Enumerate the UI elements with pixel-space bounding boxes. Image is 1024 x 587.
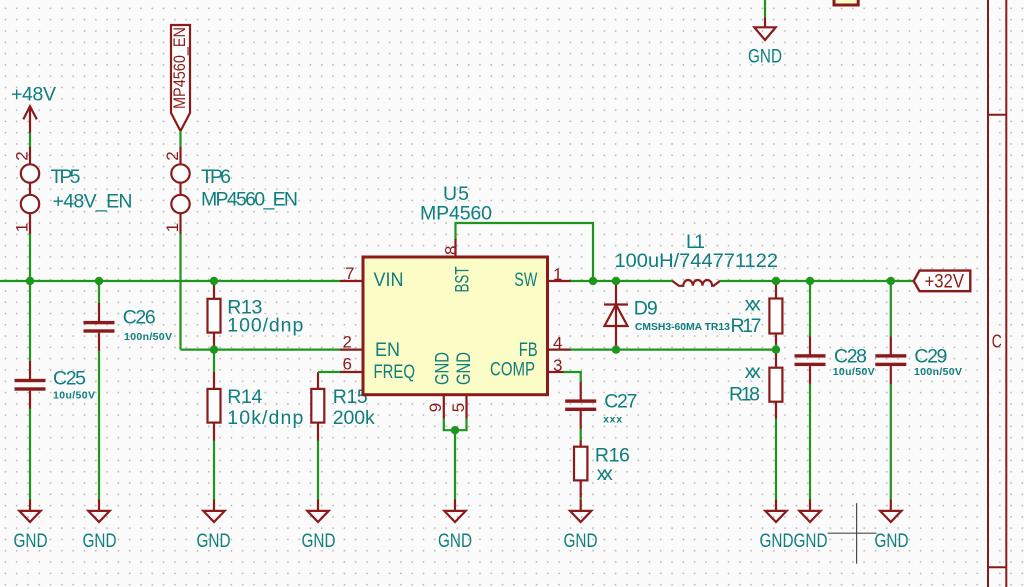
node BST drop: [589, 277, 597, 285]
svg-text:100n/50V: 100n/50V: [124, 331, 172, 343]
svg-text:GND: GND: [438, 530, 472, 552]
U5 pin 6 FREQ: [340, 355, 415, 383]
power symbol +48V: [11, 84, 56, 149]
svg-text:TP5: TP5: [51, 166, 81, 188]
node IC gnd join: [451, 426, 459, 434]
svg-text:7: 7: [345, 264, 354, 283]
node rail C26: [95, 277, 103, 285]
frame right border inner line: [987, 0, 989, 587]
resistor R15: [311, 373, 375, 441]
svg-text:C: C: [992, 332, 1002, 352]
svg-text:10k/dnp: 10k/dnp: [227, 407, 303, 429]
wire FB row: [570, 349, 776, 351]
svg-text:GND: GND: [760, 530, 794, 552]
svg-text:R18: R18: [729, 383, 760, 405]
svg-text:10u/50V: 10u/50V: [53, 390, 95, 402]
test point TP6: [163, 147, 298, 234]
hierarchical label MP4560_EN flag: [170, 25, 190, 148]
wire R13 top: [213, 281, 215, 286]
svg-text:GND: GND: [748, 46, 782, 68]
partial component top right: [834, 0, 858, 5]
U5 pin 9 GND: [426, 352, 454, 419]
U5 pin 7 VIN: [340, 264, 404, 291]
svg-text:1: 1: [553, 265, 562, 284]
resistor R13: [208, 283, 304, 350]
ground C28: [794, 500, 828, 552]
wire C28 top: [809, 281, 811, 337]
svg-text:GND: GND: [564, 530, 598, 552]
capacitor C26: [84, 303, 173, 351]
ground C26: [83, 500, 117, 552]
svg-text:xx: xx: [597, 463, 613, 485]
svg-text:MP4560_EN: MP4560_EN: [201, 189, 298, 211]
wire C28 bottom to gnd: [809, 383, 811, 500]
node EN junction: [210, 345, 218, 353]
frame row divider bottom: [988, 566, 1006, 568]
diode D9: [604, 281, 730, 350]
svg-text:9: 9: [426, 403, 445, 412]
U5 pin 3 COMP: [490, 356, 564, 381]
ground top GND: [748, 17, 782, 67]
U5 pin 5 GND: [449, 352, 475, 419]
svg-text:GND: GND: [83, 530, 117, 552]
svg-text:R17: R17: [731, 315, 762, 337]
ground U5: [438, 500, 472, 552]
svg-text:CMSH3-60MA TR13: CMSH3-60MA TR13: [635, 321, 730, 333]
svg-text:100/dnp: 100/dnp: [227, 314, 303, 336]
wire TP5 column vertical: [29, 234, 31, 362]
wire IC gnd to gnd symbol: [454, 430, 456, 500]
resistor R17: [731, 285, 783, 345]
resistor R14: [208, 372, 304, 441]
svg-text:10u/50V: 10u/50V: [833, 366, 875, 378]
svg-text:+48V_EN: +48V_EN: [53, 191, 133, 213]
wire C26 to gnd: [98, 350, 100, 500]
ground C25: [14, 500, 48, 552]
svg-text:2: 2: [13, 151, 32, 160]
wire C27 to R16: [580, 428, 582, 441]
svg-text:MP4560_EN: MP4560_EN: [170, 27, 189, 109]
node rail R17: [772, 277, 780, 285]
svg-text:C29: C29: [914, 345, 947, 367]
capacitor C27: [565, 382, 637, 429]
capacitor C29: [875, 337, 962, 384]
ground R16: [564, 500, 598, 552]
node rail C28: [806, 277, 814, 285]
op IC U5 MP4560 body: [363, 183, 548, 395]
svg-text:1: 1: [163, 223, 182, 232]
frame row divider top: [988, 114, 1006, 116]
svg-text:EN: EN: [375, 340, 400, 361]
svg-text:SW: SW: [514, 270, 537, 291]
svg-text:TP6: TP6: [201, 166, 231, 188]
cursor crosshair: [828, 503, 877, 563]
svg-text:D9: D9: [634, 298, 658, 320]
wire R14 top: [213, 350, 215, 373]
svg-text:GND: GND: [875, 530, 909, 552]
wire R17 bottom link: [775, 344, 777, 353]
inductor L1: [615, 231, 779, 286]
svg-text:100uH/744771122: 100uH/744771122: [615, 250, 779, 272]
U5 pin 4 FB: [519, 334, 571, 362]
svg-text:xxx: xxx: [603, 413, 622, 425]
svg-text:200k: 200k: [333, 407, 375, 429]
U5 pin 8 BST: [442, 239, 474, 293]
wire C25 to gnd: [29, 408, 31, 500]
U5 pin 1 SW: [514, 265, 570, 291]
test point TP5: [13, 147, 133, 234]
node FB R17 R18: [772, 345, 780, 353]
wire R18 bottom to gnd: [775, 418, 777, 500]
wire R15 bottom to gnd: [317, 440, 319, 500]
wire L1 to +32V flag: [720, 280, 914, 282]
svg-text:GND: GND: [14, 530, 48, 552]
node rail TP5: [26, 277, 34, 285]
svg-text:C28: C28: [834, 345, 867, 367]
svg-text:GND: GND: [302, 530, 336, 552]
svg-text:xx: xx: [745, 361, 761, 383]
wire FREQ row: [318, 371, 341, 373]
node SW D9: [612, 277, 620, 285]
node FB D9: [612, 345, 620, 353]
resistor R18: [729, 353, 782, 419]
svg-text:C26: C26: [123, 307, 156, 329]
svg-text:xx: xx: [745, 294, 761, 316]
svg-text:FREQ: FREQ: [374, 362, 416, 383]
svg-text:R14: R14: [227, 386, 262, 408]
svg-text:GND: GND: [197, 530, 231, 552]
svg-text:8: 8: [442, 246, 461, 255]
frame right border outer line: [1005, 0, 1007, 587]
wire C29 bottom to gnd: [890, 383, 892, 500]
wire C29 top: [890, 281, 892, 337]
svg-text:+32V: +32V: [925, 271, 965, 293]
ground C29: [875, 500, 909, 552]
resistor R16: [574, 441, 630, 498]
ground R14: [197, 500, 231, 552]
wire R14 bottom to gnd: [213, 440, 215, 500]
wire C26 column: [98, 281, 100, 304]
svg-text:BST: BST: [452, 266, 473, 292]
svg-text:100n/50V: 100n/50V: [914, 366, 962, 378]
svg-text:4: 4: [553, 334, 562, 353]
wire BST loop: [456, 223, 594, 281]
wire top gnd drop: [764, 0, 766, 17]
U5 pin 2 EN: [340, 333, 400, 362]
capacitor C28: [795, 337, 875, 384]
svg-text:C25: C25: [53, 368, 86, 390]
svg-text:GND: GND: [794, 530, 828, 552]
wire R16 to gnd: [580, 497, 582, 500]
ground R15: [302, 500, 336, 552]
svg-text:1: 1: [13, 223, 32, 232]
svg-text:GND: GND: [454, 352, 475, 385]
wire COMP turn: [563, 372, 581, 383]
wire SW to L1: [570, 280, 673, 282]
wire EN row: [181, 349, 341, 351]
wire main input rail: [0, 280, 340, 282]
svg-text:FB: FB: [519, 340, 538, 361]
svg-text:COMP: COMP: [490, 360, 535, 381]
svg-text:2: 2: [163, 151, 182, 160]
node rail R13: [210, 277, 218, 285]
svg-text:6: 6: [343, 355, 352, 374]
svg-text:5: 5: [449, 403, 468, 412]
svg-text:MP4560: MP4560: [420, 202, 492, 224]
capacitor C25: [15, 361, 96, 409]
node rail C29: [887, 277, 895, 285]
wire TP6 column vertical: [179, 234, 181, 350]
svg-text:VIN: VIN: [374, 270, 404, 291]
svg-text:C27: C27: [604, 390, 637, 412]
ground R18: [760, 500, 794, 552]
svg-text:2: 2: [343, 333, 352, 352]
svg-text:GND: GND: [432, 352, 453, 385]
wire R15 column: [317, 372, 319, 373]
junction dots: [26, 277, 895, 435]
wire IC gnd pins joiner: [444, 419, 467, 430]
svg-text:3: 3: [553, 356, 562, 375]
svg-text:+48V: +48V: [11, 84, 56, 106]
power flag +32V: [914, 271, 971, 293]
